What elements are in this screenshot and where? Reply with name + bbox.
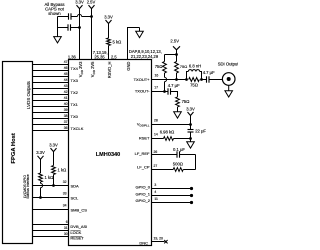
junction C1 / 2.5V rail	[90, 15, 93, 18]
wire SMB_CS pin 34	[33, 209, 69, 211]
svg-text:VDDPLL: VDDPLL	[137, 122, 150, 128]
junction on SDA	[52, 184, 55, 187]
chip top rotated label VDD2V5	[90, 61, 96, 77]
resistor 75 Ohm (pullup to TXOUT-)	[163, 62, 167, 74]
wire TX3 pair	[33, 76, 69, 78]
capacitor 0.1 uF	[176, 151, 178, 157]
svg-text:LF_REF: LF_REF	[135, 151, 150, 156]
svg-text:44: 44	[64, 78, 68, 82]
wire with hop over TXOUT+	[164, 73, 166, 77]
wire TX4 pair	[33, 64, 69, 66]
svg-text:33: 33	[63, 192, 67, 196]
svg-text:GND: GND	[126, 62, 131, 71]
svg-text:40: 40	[64, 102, 68, 106]
svg-text:34: 34	[63, 204, 67, 208]
svg-text:22 μF: 22 μF	[195, 128, 206, 133]
resistor 500 Ohm (loop filter)	[173, 168, 183, 172]
wire	[209, 79, 222, 81]
svg-text:TXCLK: TXCLK	[71, 126, 84, 131]
svg-text:4: 4	[154, 190, 156, 194]
wire	[171, 92, 178, 97]
wire	[190, 116, 192, 125]
svg-text:TX4: TX4	[71, 66, 79, 71]
svg-text:21,22,23,24,29: 21,22,23,24,29	[131, 54, 159, 59]
junction on TXOUT+	[175, 78, 178, 81]
wire	[174, 138, 191, 140]
chip label DNC	[139, 241, 148, 246]
svg-text:75Ω: 75Ω	[180, 64, 187, 69]
svg-text:LVDS Outputs: LVDS Outputs	[26, 80, 31, 109]
svg-text:46: 46	[64, 66, 68, 70]
junction on SCL	[39, 196, 42, 199]
svg-text:30: 30	[64, 232, 68, 236]
junction C2 / 3.3V rail	[78, 26, 81, 29]
supply 3.3V (SCL pullup)	[36, 150, 45, 155]
wire	[180, 154, 196, 156]
svg-text:DVB_ASI: DVB_ASI	[70, 224, 87, 229]
wire	[108, 24, 110, 39]
svg-text:2,5: 2,5	[111, 54, 117, 59]
svg-text:6: 6	[66, 220, 68, 224]
chip label LF_REF	[135, 151, 150, 156]
svg-text:47: 47	[64, 60, 68, 64]
svg-text:GPIO_0: GPIO_0	[136, 185, 151, 190]
svg-text:3.3V: 3.3V	[186, 106, 195, 111]
wire RESET pin 30 (active low)	[33, 236, 69, 238]
svg-text:1 kΩ: 1 kΩ	[45, 175, 54, 180]
svg-text:39: 39	[64, 108, 68, 112]
wire loop right vertical	[195, 155, 197, 170]
supply 3.3V (VDD3V3)	[75, 0, 84, 4]
svg-text:1 kΩ: 1 kΩ	[58, 167, 67, 172]
svg-text:17: 17	[154, 86, 158, 90]
wire GPIO_1 pin 4	[152, 195, 192, 197]
svg-text:42: 42	[64, 90, 68, 94]
svg-text:3.3V: 3.3V	[36, 150, 45, 155]
svg-text:SMBus Interface: SMBus Interface	[26, 174, 30, 199]
wire bypass left vertical	[57, 17, 59, 37]
chip top rotated label RSVD_H	[107, 62, 112, 79]
svg-text:TX2: TX2	[71, 90, 79, 95]
ground (GND pin)	[139, 28, 141, 32]
svg-text:19, 20: 19, 20	[154, 237, 164, 241]
svg-text:38: 38	[64, 114, 68, 118]
chip label TXOUT+	[134, 77, 151, 82]
svg-text:2.5V: 2.5V	[87, 0, 96, 4]
svg-text:2.5V: 2.5V	[170, 38, 179, 43]
svg-text:3: 3	[154, 183, 156, 187]
capacitor 4.7 uF (TXOUT+)	[206, 76, 208, 82]
svg-text:3.3V: 3.3V	[104, 14, 113, 19]
wire TXOUT- pin 17	[152, 91, 169, 93]
resistor 5 kOhm (RSVD_H pullup)	[107, 38, 111, 46]
svg-text:4.7 μF: 4.7 μF	[203, 70, 215, 75]
resistor 1 kOhm (SDA pullup)	[52, 166, 56, 175]
svg-text:RESET: RESET	[70, 236, 84, 241]
chip U1 LMH0340	[69, 60, 152, 246]
svg-text:shown: shown	[48, 11, 61, 16]
wire rail	[165, 54, 177, 56]
wire DNC pins 19,20 (no connect)	[152, 241, 165, 243]
svg-text:LMH0340: LMH0340	[96, 152, 121, 158]
wire	[40, 159, 42, 173]
svg-text:11: 11	[154, 197, 158, 201]
svg-text:3.3V: 3.3V	[75, 0, 84, 4]
svg-text:500Ω: 500Ω	[173, 162, 183, 167]
chip label VDDPLL	[137, 122, 150, 128]
resistor 75 Ohm (pullup to TXOUT+)	[175, 62, 179, 74]
capacitor 4.7 uF (TXOUT-)	[167, 88, 169, 94]
svg-text:TX3: TX3	[71, 78, 79, 83]
svg-text:6.98 kΩ: 6.98 kΩ	[160, 130, 175, 135]
svg-text:SMB_CS: SMB_CS	[71, 207, 88, 212]
svg-text:GPIO_2: GPIO_2	[136, 198, 151, 203]
svg-text:RSET: RSET	[139, 135, 150, 140]
note: All Bypass CAPS not shown	[44, 2, 64, 7]
wire	[53, 175, 55, 186]
junction	[189, 137, 192, 140]
svg-text:5 kΩ: 5 kΩ	[113, 39, 122, 44]
wire TX2 pair	[33, 88, 69, 90]
svg-text:43: 43	[64, 84, 68, 88]
junction network left	[185, 78, 188, 81]
junction rail	[175, 53, 178, 56]
wire TXOUT+ pin 16	[152, 79, 187, 81]
svg-text:TXOUT-: TXOUT-	[135, 89, 150, 94]
wire VDD3V3 rail	[79, 9, 81, 60]
wire LF_REF pin 26	[152, 154, 178, 156]
junction on TXOUT-	[163, 90, 166, 93]
svg-text:41: 41	[64, 96, 68, 100]
resistor 1 kOhm (SCL pullup)	[39, 173, 43, 182]
svg-text:14: 14	[154, 133, 158, 137]
svg-text:GPIO_1: GPIO_1	[136, 191, 151, 196]
wire	[53, 152, 55, 166]
svg-text:1,36: 1,36	[68, 54, 77, 59]
wire LOCK pin 31 (active low)	[33, 230, 69, 232]
svg-text:0.1 μF: 0.1 μF	[173, 147, 185, 152]
svg-text:VDD 2V5: VDD 2V5	[90, 61, 96, 77]
svg-text:75Ω: 75Ω	[182, 99, 190, 104]
svg-text:6.8 nH: 6.8 nH	[189, 64, 201, 69]
junction	[189, 123, 192, 126]
connector J1 SDI Output	[218, 61, 240, 66]
chip label RSET	[139, 135, 150, 140]
svg-text:31: 31	[64, 226, 68, 230]
svg-text:45: 45	[64, 72, 68, 76]
svg-text:3.3V: 3.3V	[49, 142, 58, 147]
wire LF_CP pin 27	[152, 169, 174, 171]
svg-text:TXOUT+: TXOUT+	[134, 77, 151, 82]
ground (RSET / 22uF)	[190, 139, 192, 142]
svg-text:TX0: TX0	[71, 114, 79, 119]
svg-text:TX1: TX1	[71, 102, 79, 107]
wire TX0 pair	[33, 112, 69, 114]
capacitor bypass C1 (to 2.5V rail)	[58, 16, 69, 18]
wire VDDPLL pin 28	[152, 124, 191, 126]
chip label LF_CP	[137, 165, 150, 170]
supply 3.3V (VDDPLL)	[186, 106, 195, 111]
wire RSET pin 14	[152, 138, 164, 140]
supply 3.3V (SDA pullup)	[49, 142, 58, 147]
chip label GPIO_1	[136, 191, 151, 196]
block FPGA Host	[3, 62, 33, 244]
svg-text:SCL: SCL	[71, 195, 80, 200]
junction network right	[200, 78, 203, 81]
svg-text:SDI Output: SDI Output	[218, 61, 238, 66]
wire VDD2V5 rail	[91, 9, 93, 60]
svg-text:36: 36	[64, 126, 68, 130]
wire RSVD_H to chip	[108, 46, 110, 60]
svg-text:75Ω: 75Ω	[190, 83, 198, 88]
svg-text:32: 32	[63, 180, 67, 184]
supply 2.5V (VDD2V5)	[87, 0, 96, 4]
wire	[176, 50, 178, 55]
inductor 6.8 nH	[187, 72, 189, 80]
svg-text:RSVD_H: RSVD_H	[107, 62, 112, 79]
capacitor 22 uF	[190, 125, 192, 130]
pin label 1,36	[68, 54, 77, 59]
ground (SDI connector)	[228, 85, 230, 90]
chip label GPIO_2	[136, 198, 151, 203]
supply 3.3V (RSVD_H pullup)	[104, 14, 113, 19]
svg-text:75Ω: 75Ω	[155, 64, 163, 69]
wire DVB_ASI pin 6	[33, 224, 69, 226]
resistor 75 Ohm (output network)	[189, 78, 200, 82]
wire	[202, 79, 207, 81]
svg-text:37: 37	[64, 120, 68, 124]
svg-text:25,35: 25,35	[94, 54, 105, 59]
supply 2.5V (termination rail)	[170, 38, 179, 43]
svg-text:LF_CP: LF_CP	[137, 165, 150, 170]
capacitor bypass C2 (to 3.3V rail)	[58, 27, 69, 29]
svg-text:DNC: DNC	[139, 241, 148, 246]
svg-text:SDA: SDA	[71, 183, 80, 188]
wire TXCLK pair	[33, 124, 69, 126]
pin label DAP + GND list	[129, 49, 162, 54]
chip label TXOUT-	[135, 89, 150, 94]
pin label 7,13,19, 25,35	[93, 50, 108, 55]
wire	[183, 169, 195, 171]
svg-text:26: 26	[154, 150, 158, 154]
wire TX1 pair	[33, 100, 69, 102]
wire GPIO_0 pin 3	[152, 188, 192, 190]
chip top rotated label GND	[126, 62, 131, 71]
svg-text:16: 16	[155, 74, 159, 78]
svg-text:27: 27	[154, 164, 158, 168]
chip top rotated label VDD3V3	[78, 61, 84, 77]
wire with hop over SDA	[40, 182, 42, 183]
wire SCL pin 33	[33, 197, 69, 199]
chip label GPIO_0	[136, 185, 151, 190]
wire GND pin up and over	[128, 28, 140, 60]
wire SDA pin 32	[33, 185, 69, 187]
ground (bypass caps)	[54, 37, 62, 43]
wire	[176, 73, 178, 80]
svg-text:FPGA Host: FPGA Host	[11, 133, 17, 163]
pin label 2,5	[111, 54, 117, 59]
wire GPIO_2 pin 11	[152, 202, 192, 204]
ground (TXOUT- termination)	[177, 107, 179, 112]
svg-text:VDD 3V3: VDD 3V3	[78, 61, 84, 77]
svg-text:4.7 μF: 4.7 μF	[168, 83, 180, 88]
resistor 75 Ohm (TXOUT- termination)	[176, 97, 180, 107]
resistor 6.98 kOhm (RSET)	[164, 137, 174, 141]
svg-text:28: 28	[154, 119, 158, 123]
